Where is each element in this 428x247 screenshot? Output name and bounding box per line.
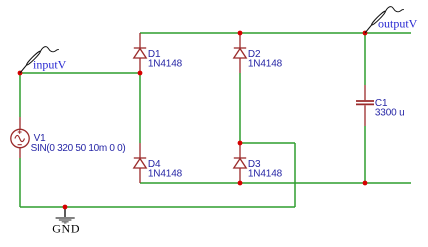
wire bottom rail (140, 182, 411, 184)
diode D2 (234, 33, 246, 73)
wire D1 bottom to D4 top (139, 73, 141, 143)
wire AC2 to D3 top (240, 142, 295, 144)
svg-text:1N4148: 1N4148 (148, 168, 183, 179)
svg-text:SIN(0 320 50 10m 0 0): SIN(0 320 50 10m 0 0) (31, 143, 126, 154)
capacitor C1 (356, 85, 374, 126)
junction dot D1 bottom (138, 71, 143, 76)
wire AC2 riser (294, 143, 296, 207)
probe icon inputV (20, 47, 59, 73)
probe icon outputV (365, 7, 404, 33)
ground (56, 208, 75, 224)
voltage source V1 (11, 117, 29, 158)
junction dot inputV (18, 71, 23, 76)
wire V1 top (19, 73, 21, 117)
wire top rail (140, 32, 411, 34)
svg-text:1N4148: 1N4148 (148, 58, 183, 69)
junction dot C1 bottom (363, 181, 368, 186)
wire lower AC2 run (20, 206, 295, 208)
svg-text:inputV: inputV (33, 57, 67, 71)
junction dot outputV (363, 31, 368, 36)
junction dot D2 top (238, 31, 243, 36)
diode D4 (134, 143, 146, 183)
junction dot GND (63, 205, 68, 210)
wire C1 top (364, 33, 366, 85)
svg-text:3300 u: 3300 u (375, 108, 405, 119)
diode D3 (234, 143, 246, 183)
wire D2 bottom to D3 top (239, 73, 241, 143)
junction dot D3 top (238, 141, 243, 146)
wire V1 bottom (19, 158, 21, 207)
svg-text:outputV: outputV (378, 17, 418, 31)
svg-text:GND: GND (52, 222, 80, 236)
wire inputV rail (20, 72, 140, 74)
junction dot D3 bottom (238, 181, 243, 186)
wire C1 bottom (364, 126, 366, 183)
svg-text:1N4148: 1N4148 (248, 58, 283, 69)
diode D1 (134, 33, 146, 73)
svg-text:1N4148: 1N4148 (248, 168, 283, 179)
